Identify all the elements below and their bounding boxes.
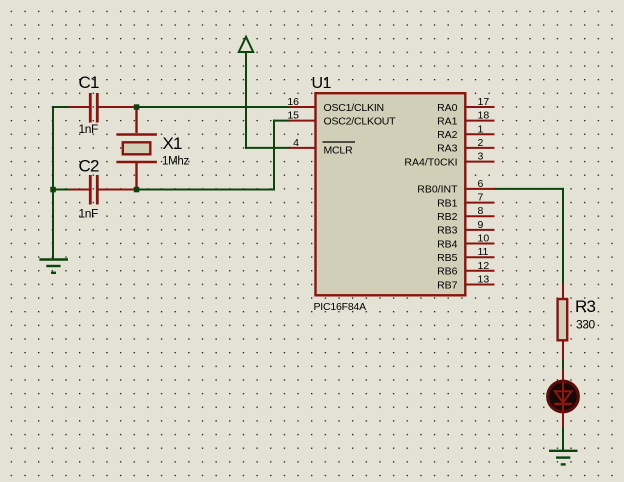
- pin 12 lead RB6: [437, 260, 494, 278]
- wire: bottom horizontal y=189.5 green segments: [52, 189, 275, 191]
- svg-text:RB3: RB3: [437, 225, 458, 237]
- svg-text:RB1: RB1: [437, 197, 458, 209]
- pin 18 lead RA1: [437, 110, 494, 128]
- pin 7 lead RB1: [437, 192, 494, 210]
- wire: LED to ground segment: [562, 426, 564, 451]
- svg-text:13: 13: [478, 274, 490, 286]
- wire: OSC2 vertical riser x=274: [273, 120, 275, 191]
- LED D1: [548, 369, 579, 427]
- svg-text:8: 8: [478, 205, 484, 217]
- svg-text:RA4/T0CKI: RA4/T0CKI: [404, 156, 457, 168]
- svg-text:3: 3: [478, 151, 484, 163]
- pin 6 lead RB0/INT: [417, 178, 495, 196]
- ground (right, below LED): [549, 451, 578, 465]
- wire: MCLR horizontal to pin 4: [245, 147, 290, 149]
- crystal X1: [116, 106, 189, 191]
- svg-text:RA3: RA3: [437, 143, 458, 155]
- svg-text:15: 15: [287, 110, 299, 122]
- svg-text:17: 17: [478, 96, 490, 108]
- svg-text:RB0/INT: RB0/INT: [417, 184, 458, 196]
- wire: RB0 horizontal to right column: [494, 188, 564, 190]
- svg-text:1Mhz: 1Mhz: [162, 156, 189, 168]
- svg-text:RB5: RB5: [437, 252, 458, 264]
- svg-text:2: 2: [478, 137, 484, 149]
- svg-text:RA2: RA2: [437, 129, 458, 141]
- svg-text:OSC1/CLKIN: OSC1/CLKIN: [324, 102, 384, 114]
- pin 8 lead RB2: [437, 205, 494, 223]
- svg-text:C2: C2: [79, 157, 99, 176]
- pin 13 lead RB7: [437, 274, 494, 292]
- op chip U1 PIC16F84A: [312, 75, 466, 313]
- svg-text:7: 7: [478, 192, 484, 204]
- svg-text:1nF: 1nF: [79, 207, 99, 221]
- svg-text:RB6: RB6: [437, 266, 458, 278]
- wire: R3 to LED segment: [562, 359, 564, 370]
- pin 2 lead RA3: [437, 137, 494, 155]
- node: junction rail/C2: [50, 187, 56, 193]
- svg-text:RA0: RA0: [437, 102, 458, 114]
- pin 11 lead RB5: [437, 246, 494, 264]
- pin 16 lead OSC1/CLKIN: [287, 96, 384, 114]
- svg-text:RB7: RB7: [437, 279, 458, 291]
- wire: OSC1 horizontal y=107 green segments: [52, 106, 290, 108]
- wire: OSC2 horizontal stub to pin 15: [273, 120, 290, 122]
- resistor R3: [558, 284, 596, 361]
- svg-text:10: 10: [478, 233, 490, 245]
- svg-text:16: 16: [287, 96, 299, 108]
- svg-text:330: 330: [576, 318, 596, 332]
- pin 15 lead OSC2/CLKOUT: [287, 110, 396, 128]
- ground (left): [39, 260, 68, 273]
- svg-text:1: 1: [478, 123, 484, 135]
- svg-text:C1: C1: [79, 73, 99, 92]
- pin 10 lead RB4: [437, 233, 494, 251]
- pin 17 lead RA0: [437, 96, 494, 114]
- svg-text:R3: R3: [575, 297, 595, 316]
- pin 3 lead RA4/T0CKI: [404, 151, 494, 169]
- power terminal arrow: [239, 37, 253, 52]
- svg-text:11: 11: [478, 246, 489, 258]
- svg-text:RA1: RA1: [437, 115, 458, 127]
- svg-text:RB2: RB2: [437, 211, 458, 223]
- pin 4 lead MCLR (overlined): [289, 137, 355, 157]
- svg-text:12: 12: [478, 260, 490, 272]
- svg-text:X1: X1: [163, 134, 183, 153]
- svg-text:U1: U1: [312, 75, 332, 92]
- wire: right column vertical down to R3: [562, 188, 564, 285]
- pin 1 lead RA2: [437, 123, 494, 141]
- svg-text:4: 4: [293, 137, 299, 149]
- svg-text:18: 18: [478, 110, 490, 122]
- svg-text:9: 9: [478, 219, 484, 231]
- wire: power vertical down to MCLR row: [245, 52, 247, 149]
- node: junction C1/crystal/OSC1: [134, 104, 140, 110]
- svg-text:6: 6: [478, 178, 484, 190]
- capacitor C2: [69, 157, 134, 221]
- capacitor C1: [69, 73, 134, 136]
- svg-text:1nF: 1nF: [79, 122, 99, 136]
- pin 9 lead RB3: [437, 219, 494, 237]
- svg-text:RB4: RB4: [437, 238, 458, 250]
- node: junction C2/crystal/OSC2: [134, 187, 140, 193]
- svg-text:MCLR: MCLR: [324, 145, 354, 157]
- wire: left rail vertical from C1 wire down to ground: [52, 106, 54, 260]
- svg-text:PIC16F84A: PIC16F84A: [314, 301, 367, 313]
- svg-text:OSC2/CLKOUT: OSC2/CLKOUT: [324, 115, 397, 127]
